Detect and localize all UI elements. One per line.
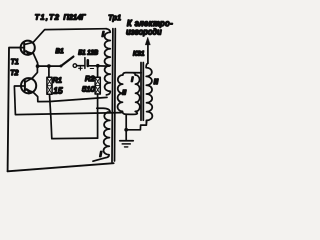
wire R1 top lead	[48, 66, 50, 77]
wire lower row	[52, 137, 98, 140]
wire T2 base rail	[14, 86, 121, 115]
ground	[120, 130, 133, 147]
wire T2 emitter to R1 bottom	[33, 92, 50, 102]
svg-text:П214Г: П214Г	[64, 12, 87, 21]
wire switch to battery	[77, 65, 84, 67]
wire T1 emitter down to node	[33, 54, 37, 67]
battery B1 12V	[85, 58, 88, 69]
wire loop bottom to ground node	[125, 114, 127, 130]
winding II of Tr1 (loop left column)	[118, 75, 123, 111]
svg-text:Б1 12В: Б1 12В	[78, 50, 98, 56]
ignition coil KZ1 secondary winding II	[146, 63, 152, 123]
svg-text:Тр1: Тр1	[108, 13, 121, 22]
svg-text:R2: R2	[85, 74, 94, 83]
svg-text:КЗ1: КЗ1	[133, 50, 145, 57]
wire T1 collector to top rail	[33, 29, 106, 43]
wire R1 bottom lead down	[50, 94, 52, 138]
svg-text:510: 510	[82, 85, 95, 94]
transformer Tr1 primary winding I upper	[105, 29, 111, 95]
svg-text:В1: В1	[56, 48, 65, 55]
node ground junction dot	[124, 128, 128, 132]
wire battery to R2 node	[89, 65, 98, 67]
svg-text:I: I	[100, 149, 103, 158]
wire ground node to secondary bottom	[126, 120, 146, 130]
svg-text:I: I	[131, 77, 133, 84]
svg-text:Т2: Т2	[10, 70, 18, 77]
wire T1 base to left rail	[8, 48, 21, 172]
svg-text:К электро-: К электро-	[127, 19, 173, 28]
transformer Tr1 winding I lower	[93, 108, 110, 161]
ignition coil KZ1 core	[141, 63, 143, 121]
svg-text:Т1,Т2: Т1,Т2	[35, 12, 60, 21]
node R2 top junction dot	[96, 64, 100, 68]
battery minus sign	[90, 68, 93, 70]
wire R2 top lead	[97, 66, 99, 77]
output arrow to fence	[145, 37, 150, 63]
svg-text:R1: R1	[53, 76, 62, 85]
svg-text:15: 15	[53, 86, 63, 96]
transistor T1	[21, 41, 35, 56]
wire T2 collector up to node	[32, 66, 37, 78]
node A junction dot	[36, 64, 40, 68]
node R1 top junction dot	[47, 64, 51, 68]
wire node to winding tap	[98, 65, 110, 67]
resistor R2	[95, 77, 100, 94]
battery plus sign	[79, 67, 83, 71]
winding I of KZ1 (loop right column)	[135, 75, 140, 111]
svg-text:изгороди: изгороди	[126, 28, 162, 37]
transistor T2	[21, 78, 36, 95]
wire emitter row to winding bottom	[50, 97, 107, 101]
transformer Tr1 core	[112, 29, 115, 162]
wire R2 bottom lead down	[97, 94, 99, 138]
svg-text:Т1: Т1	[11, 59, 19, 66]
svg-text:II: II	[154, 79, 159, 86]
resistor R1	[47, 77, 52, 94]
wire loop bottom arc	[122, 111, 137, 114]
wire loop top bar	[123, 73, 141, 75]
wire main row to switch	[38, 65, 61, 67]
svg-text:II: II	[122, 89, 126, 96]
switch B1	[60, 57, 77, 68]
wire bottom rail	[8, 163, 114, 171]
